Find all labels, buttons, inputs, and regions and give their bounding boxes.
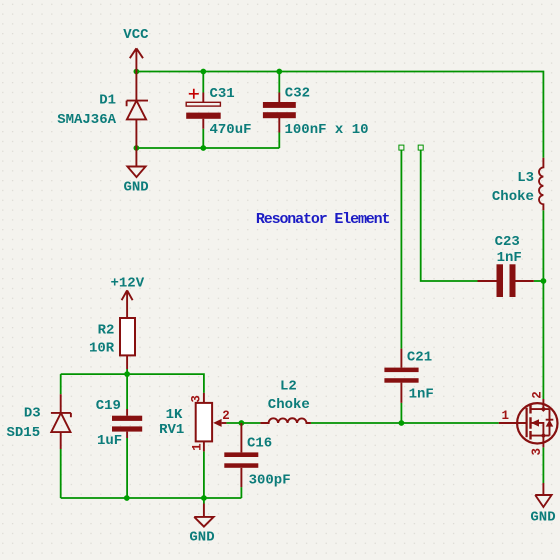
svg-text:GND: GND <box>124 180 149 196</box>
svg-text:1K: 1K <box>166 407 183 423</box>
svg-text:2: 2 <box>222 409 230 423</box>
svg-text:VCC: VCC <box>123 27 149 43</box>
svg-text:10R: 10R <box>89 340 115 356</box>
svg-text:C31: C31 <box>210 86 235 102</box>
svg-text:C19: C19 <box>96 398 121 414</box>
svg-text:C16: C16 <box>247 436 272 452</box>
svg-text:2: 2 <box>530 391 544 399</box>
svg-text:100nF x 10: 100nF x 10 <box>285 122 369 138</box>
svg-text:1nF: 1nF <box>409 386 434 402</box>
svg-text:GND: GND <box>530 509 555 525</box>
svg-text:Resonator Element: Resonator Element <box>256 211 390 228</box>
svg-text:C21: C21 <box>407 349 432 365</box>
svg-text:470uF: 470uF <box>210 122 252 138</box>
svg-text:1uF: 1uF <box>97 433 122 449</box>
svg-text:L2: L2 <box>280 378 297 394</box>
svg-text:1nF: 1nF <box>497 250 522 266</box>
svg-text:R2: R2 <box>98 323 115 339</box>
svg-text:C32: C32 <box>285 86 310 102</box>
svg-text:1: 1 <box>502 409 510 423</box>
svg-text:D1: D1 <box>99 93 116 109</box>
svg-text:GND: GND <box>189 529 214 545</box>
svg-text:3: 3 <box>190 395 204 403</box>
svg-text:3: 3 <box>530 448 544 456</box>
svg-text:RV1: RV1 <box>159 422 184 438</box>
svg-text:L3: L3 <box>517 170 534 186</box>
svg-text:C23: C23 <box>495 234 520 250</box>
svg-text:Choke: Choke <box>268 397 310 413</box>
svg-text:Choke: Choke <box>492 189 534 205</box>
svg-text:D3: D3 <box>24 406 41 422</box>
svg-text:1: 1 <box>190 443 204 451</box>
svg-text:300pF: 300pF <box>249 473 291 489</box>
svg-text:+12V: +12V <box>111 276 145 292</box>
svg-text:SMAJ36A: SMAJ36A <box>57 112 116 128</box>
svg-text:SD15: SD15 <box>7 425 41 441</box>
